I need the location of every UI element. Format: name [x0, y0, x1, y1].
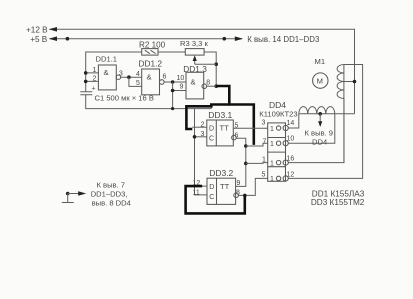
- svg-text:C: C: [209, 194, 214, 201]
- svg-text:+: +: [92, 86, 96, 93]
- svg-text:TT: TT: [220, 124, 230, 133]
- svg-text:R2 100: R2 100: [139, 40, 166, 49]
- svg-text:1: 1: [270, 160, 274, 167]
- svg-text:+12 В: +12 В: [26, 26, 48, 35]
- svg-text:4: 4: [136, 71, 140, 78]
- svg-text:1: 1: [270, 141, 274, 148]
- svg-text:M1: M1: [315, 57, 326, 66]
- svg-text:8: 8: [206, 79, 210, 86]
- svg-text:R3 3,3 к: R3 3,3 к: [180, 39, 208, 48]
- svg-text:DD1–DD3,: DD1–DD3,: [91, 190, 128, 199]
- svg-text:3: 3: [119, 71, 123, 78]
- svg-text:D: D: [209, 125, 214, 132]
- svg-text:3: 3: [262, 120, 266, 127]
- svg-text:1: 1: [270, 176, 274, 183]
- svg-text:DD4: DD4: [312, 137, 327, 146]
- svg-text:9: 9: [237, 180, 241, 187]
- svg-text:DD3 К155ТМ2: DD3 К155ТМ2: [311, 198, 365, 207]
- svg-text:10: 10: [177, 75, 185, 82]
- svg-text:&: &: [104, 68, 109, 77]
- svg-text:6: 6: [163, 73, 167, 80]
- svg-text:TT: TT: [220, 182, 230, 191]
- svg-text:DD3.2: DD3.2: [209, 168, 233, 178]
- svg-text:+5 В: +5 В: [30, 35, 48, 44]
- svg-text:5: 5: [262, 172, 266, 179]
- svg-text:DD3.1: DD3.1: [208, 110, 232, 120]
- svg-text:5: 5: [136, 80, 140, 87]
- svg-text:C: C: [209, 136, 214, 143]
- svg-text:&: &: [147, 73, 152, 82]
- svg-text:&: &: [191, 78, 196, 87]
- svg-text:2: 2: [93, 75, 97, 82]
- svg-text:DD1.2: DD1.2: [139, 59, 163, 69]
- svg-text:11: 11: [193, 189, 200, 196]
- svg-text:9: 9: [180, 84, 184, 91]
- svg-text:2: 2: [201, 122, 205, 129]
- svg-text:К выв. 14 DD1–DD3: К выв. 14 DD1–DD3: [247, 35, 320, 44]
- svg-text:DD4: DD4: [269, 100, 286, 110]
- svg-text:К выв. 9: К выв. 9: [305, 128, 334, 137]
- svg-text:1: 1: [93, 67, 97, 74]
- svg-text:D: D: [209, 184, 214, 191]
- svg-text:выв. 8 DD4: выв. 8 DD4: [92, 199, 131, 208]
- svg-text:3: 3: [201, 131, 205, 138]
- svg-text:К1109КТ23: К1109КТ23: [259, 110, 297, 119]
- svg-text:DD1.1: DD1.1: [96, 54, 118, 63]
- svg-text:7: 7: [263, 139, 267, 146]
- svg-text:1: 1: [270, 126, 274, 133]
- svg-text:М: М: [317, 77, 323, 86]
- svg-text:К выв. 7: К выв. 7: [97, 181, 126, 190]
- svg-text:1: 1: [262, 157, 266, 164]
